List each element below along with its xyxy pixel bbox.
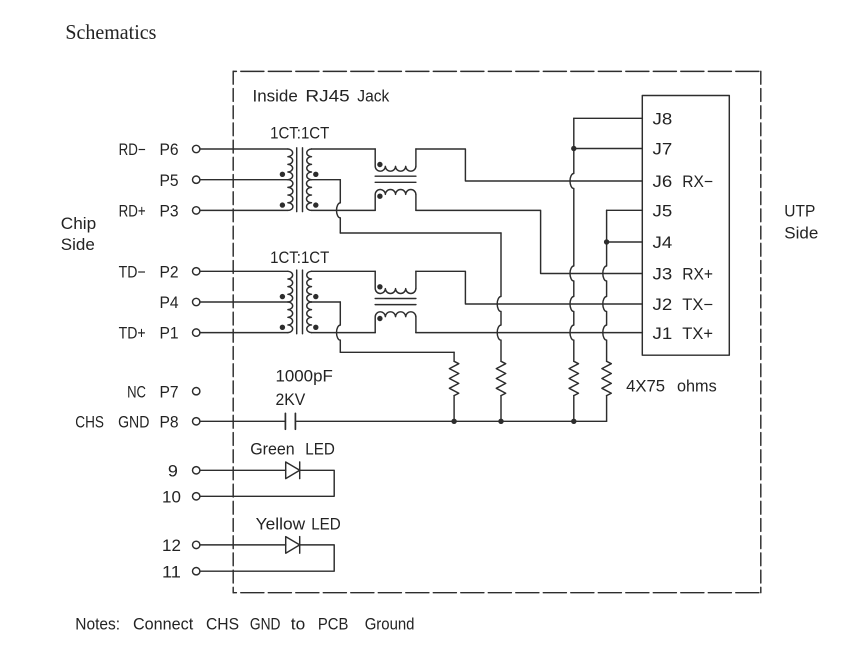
svg-text:Jack: Jack <box>357 87 390 105</box>
svg-text:1000pF: 1000pF <box>276 368 333 386</box>
svg-text:LED: LED <box>311 515 341 533</box>
LED D1 Green diode <box>286 462 300 479</box>
svg-text:Side: Side <box>784 225 818 243</box>
T1 primary polarity dots <box>280 172 285 177</box>
common-mode choke L1 winding B <box>375 190 416 211</box>
wire T2 secondary top to choke L2 <box>312 270 376 272</box>
wire R1 vertical <box>453 352 455 361</box>
transformer T2 core <box>296 270 298 334</box>
svg-text:TX+: TX+ <box>682 325 713 343</box>
wire T1 center tap horizontal to R2 <box>340 232 501 234</box>
svg-text:CHS: CHS <box>206 616 239 634</box>
svg-text:4X75: 4X75 <box>626 377 665 395</box>
svg-text:10: 10 <box>162 488 181 506</box>
wire J4 <box>607 241 643 243</box>
pin 10 terminal circle <box>193 493 200 500</box>
svg-text:GND: GND <box>118 413 149 431</box>
choke L2 polarity dots <box>377 284 382 289</box>
wire T1 center tap <box>312 179 341 181</box>
wire T1 secondary top to choke L1 <box>312 148 376 150</box>
resistor R3 75 ohm <box>569 361 578 395</box>
label UTP Side <box>784 203 818 243</box>
svg-text:Chip: Chip <box>61 215 96 233</box>
T2 secondary polarity dots <box>313 294 318 299</box>
pin 9 terminal circle <box>193 467 200 474</box>
wire choke L2 out bottom to J1 <box>416 332 642 334</box>
T1 secondary polarity dots <box>313 172 318 177</box>
svg-text:Notes:: Notes: <box>75 616 120 634</box>
capacitor C1 1000pF 2KV <box>284 413 286 429</box>
svg-text:Connect: Connect <box>133 616 194 634</box>
svg-text:Ground: Ground <box>365 616 415 634</box>
wire net B vertical J5/J4 to R4 (hops J3,J2,J1 rows) <box>603 210 607 361</box>
svg-text:Side: Side <box>61 236 95 254</box>
svg-text:P5: P5 <box>160 172 179 190</box>
transformer T1 primary winding (RD) <box>288 149 293 180</box>
wire choke L1 out top to J6 <box>416 149 642 181</box>
label Yellow LED <box>256 515 341 533</box>
label Chip Side <box>61 215 96 254</box>
svg-text:P2: P2 <box>160 263 179 281</box>
label NC P7 <box>127 383 179 401</box>
wire pin P3 to transformer <box>200 209 288 211</box>
svg-text:RX−: RX− <box>682 173 713 191</box>
wire pin P2 to transformer <box>200 270 288 272</box>
wire CHS GND rail <box>297 420 607 422</box>
pin P8 terminal circle <box>193 418 200 425</box>
wire T2 center tap vertical (hops J1 row) <box>337 302 341 352</box>
svg-text:LED: LED <box>305 440 335 458</box>
svg-text:P7: P7 <box>160 383 179 401</box>
wire T2 center tap horizontal to R1 <box>340 351 454 353</box>
wire pin 9 to LED D1 <box>200 469 286 471</box>
svg-text:RD+: RD+ <box>119 203 146 221</box>
svg-text:UTP: UTP <box>784 203 815 221</box>
label J2 TX− <box>653 296 714 314</box>
label RD+ P3 <box>119 203 179 221</box>
junction dot J7/J8 <box>571 146 576 151</box>
svg-text:GND: GND <box>250 616 281 634</box>
svg-text:J7: J7 <box>653 141 673 159</box>
svg-text:P1: P1 <box>160 325 179 343</box>
svg-text:P3: P3 <box>160 203 179 221</box>
svg-text:Schematics: Schematics <box>65 20 156 44</box>
pin P5 terminal circle <box>193 176 200 183</box>
common-mode choke L2 core <box>375 298 416 300</box>
label CHS GND P8 <box>75 413 178 431</box>
svg-text:ohms: ohms <box>677 377 717 395</box>
wire choke L2 out top to J2 <box>416 271 642 304</box>
label J6 RX− <box>653 173 714 191</box>
transformer T1 core <box>296 148 298 212</box>
junction dot J4/J5 <box>604 239 609 244</box>
choke L1 polarity dots <box>377 162 382 167</box>
svg-text:P8: P8 <box>160 413 179 431</box>
svg-text:1CT:1CT: 1CT:1CT <box>270 249 329 267</box>
wire R2 to ground rail <box>500 396 502 422</box>
svg-text:12: 12 <box>162 537 181 555</box>
note Connect CHS GND to PCB Ground <box>75 616 414 634</box>
label J3 RX+ <box>653 266 714 284</box>
svg-text:PCB: PCB <box>318 616 349 634</box>
label Green LED <box>250 440 335 458</box>
wire LED D2 to pin 11 <box>200 545 334 571</box>
wire pin P6 to transformer <box>200 148 288 150</box>
label 4X75 ohms <box>626 377 717 395</box>
junction dot R2/rail <box>498 419 503 424</box>
transformer T1 secondary winding <box>307 149 312 180</box>
wire pin P5 to transformer <box>200 179 288 181</box>
svg-text:J2: J2 <box>653 296 673 314</box>
svg-text:Inside: Inside <box>253 87 298 105</box>
common-mode choke L2 winding B <box>375 312 416 333</box>
connector J1 pin box <box>642 96 729 356</box>
pin P2 terminal circle <box>193 268 200 275</box>
wire R4 to ground rail <box>606 396 608 422</box>
label 1000pF 2KV <box>276 368 333 409</box>
label RD- P6 <box>119 141 179 159</box>
svg-text:9: 9 <box>168 462 178 480</box>
wire choke L1 out bottom to J3 <box>416 210 642 273</box>
wire LED D1 to pin 10 <box>200 470 334 496</box>
wire T2 secondary bottom to choke L2 <box>312 332 376 334</box>
transformer T2 secondary winding <box>307 271 312 302</box>
svg-text:J1: J1 <box>653 325 673 343</box>
svg-text:RJ45: RJ45 <box>305 87 349 105</box>
pin 12 terminal circle <box>193 541 200 548</box>
pin P1 terminal circle <box>193 329 200 336</box>
wire J8 <box>574 117 643 119</box>
wire pin P1 to transformer <box>200 332 288 334</box>
svg-text:2KV: 2KV <box>276 391 306 409</box>
label Inside RJ45 Jack <box>253 87 390 105</box>
svg-text:11: 11 <box>162 563 181 581</box>
wire T1 center tap vertical (hops P3 row) <box>337 180 341 233</box>
wire P8 to capacitor C1 <box>200 420 285 422</box>
common-mode choke L2 winding A <box>375 271 416 293</box>
svg-text:TD−: TD− <box>119 263 146 281</box>
label J1 TX+ <box>653 325 714 343</box>
resistor R4 75 ohm <box>602 361 611 395</box>
junction dot R1/rail <box>451 419 456 424</box>
pin P6 terminal circle <box>193 145 200 152</box>
wire pin 12 to LED D2 <box>200 544 286 546</box>
svg-text:J3: J3 <box>653 266 673 284</box>
svg-text:P4: P4 <box>160 294 179 312</box>
wire pin P4 to transformer <box>200 301 288 303</box>
svg-text:Green: Green <box>250 440 295 458</box>
svg-text:Yellow: Yellow <box>256 515 306 533</box>
svg-text:RD−: RD− <box>119 141 146 159</box>
svg-text:CHS: CHS <box>75 413 104 431</box>
label TD+ P1 <box>119 325 179 343</box>
common-mode choke L1 winding A <box>375 149 416 171</box>
junction dot R3/rail <box>571 419 576 424</box>
wire J7 <box>574 148 643 150</box>
pin P4 terminal circle <box>193 298 200 305</box>
transformer T2 primary winding (TD) <box>288 271 293 302</box>
common-mode choke L1 core <box>375 175 416 177</box>
wire J5 <box>607 209 643 211</box>
svg-text:RX+: RX+ <box>682 266 713 284</box>
svg-text:1CT:1CT: 1CT:1CT <box>270 125 329 143</box>
pin P3 terminal circle <box>193 207 200 214</box>
LED D2 Yellow diode <box>286 537 300 554</box>
label TD- P2 <box>119 263 179 281</box>
svg-text:J5: J5 <box>653 203 673 221</box>
svg-text:TX−: TX− <box>682 296 713 314</box>
wire T2 center tap <box>312 301 341 303</box>
pin P7 terminal circle <box>193 388 200 395</box>
wire R1 to ground rail <box>453 396 455 422</box>
svg-text:NC: NC <box>127 383 146 401</box>
dashed enclosure border (Inside RJ45 Jack) <box>233 71 761 592</box>
svg-text:P6: P6 <box>160 141 179 159</box>
svg-text:to: to <box>291 616 305 634</box>
pin 11 terminal circle <box>193 568 200 575</box>
svg-text:J4: J4 <box>653 234 673 252</box>
T2 primary polarity dots <box>280 294 285 299</box>
wire R2 vertical (hops J2,J1 rows) <box>497 233 501 361</box>
svg-text:TD+: TD+ <box>119 325 146 343</box>
svg-text:J8: J8 <box>653 111 673 129</box>
resistor R1 75 ohm <box>449 361 458 395</box>
wire R3 to ground rail <box>573 396 575 422</box>
wire T1 secondary bottom to choke L1 <box>312 209 376 211</box>
svg-text:J6: J6 <box>653 173 673 191</box>
wire net A vertical J8/J7 to R3 (hops J6,J3,J2,J1 rows) <box>570 118 574 361</box>
resistor R2 75 ohm <box>496 361 505 395</box>
